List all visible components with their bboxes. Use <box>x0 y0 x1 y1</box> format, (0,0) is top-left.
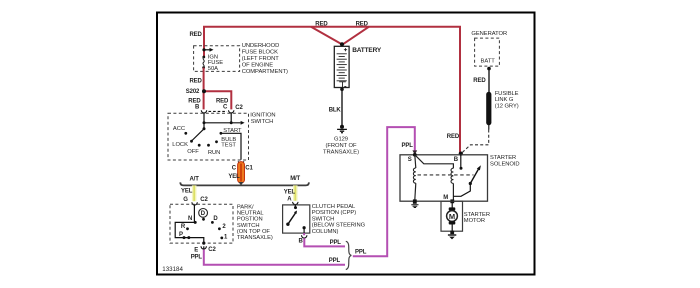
svg-text:SWITCH: SWITCH <box>251 119 274 125</box>
svg-text:FUSE: FUSE <box>208 60 223 66</box>
solenoid B contact wire <box>460 154 463 170</box>
CPP switch contacts and lever <box>286 205 306 233</box>
ignition switch position labels <box>172 126 242 156</box>
starter motor box <box>441 201 463 231</box>
wire PPL from brace to solenoid S <box>353 127 415 256</box>
svg-text:TRANSAXLE): TRANSAXLE) <box>323 149 359 155</box>
ground G129 <box>337 125 347 133</box>
dashed connection fusible link to solenoid B <box>462 130 489 153</box>
svg-text:(ON TOP OF: (ON TOP OF <box>237 229 271 235</box>
fusible link label <box>495 91 519 109</box>
svg-text:IGNITION: IGNITION <box>250 112 275 118</box>
svg-text:(FRONT OF: (FRONT OF <box>326 143 358 149</box>
svg-text:C2: C2 <box>208 247 216 253</box>
label G129 <box>323 136 359 155</box>
solenoid ground <box>411 199 418 207</box>
wire YEL to park/neutral switch <box>192 185 197 201</box>
terminal M <box>443 195 454 203</box>
svg-text:YEL: YEL <box>181 189 193 195</box>
svg-text:RED: RED <box>356 21 369 27</box>
wire RED top feed from fuse block to battery and solenoid B <box>204 27 460 154</box>
junction bracket A/T M/T <box>180 182 309 185</box>
terminal S <box>408 153 417 163</box>
svg-text:(12 GRY): (12 GRY) <box>495 103 519 109</box>
park/neutral switch contact path N-P-E <box>175 222 204 243</box>
svg-text:PPL: PPL <box>355 249 367 255</box>
battery <box>334 42 349 91</box>
park/neutral position switch dashed box <box>170 204 233 243</box>
svg-text:COMPARTMENT): COMPARTMENT) <box>242 69 288 75</box>
starter solenoid label <box>490 155 520 168</box>
svg-text:C2: C2 <box>235 105 243 111</box>
svg-text:C2: C2 <box>200 197 208 203</box>
wire RED fuse to S202 and to C2 terminals B and C <box>204 68 232 110</box>
svg-text:G: G <box>183 197 188 203</box>
plunger dashed link <box>418 174 474 176</box>
ignition switch label <box>250 112 275 125</box>
connector cup G <box>192 202 197 205</box>
svg-text:C1: C1 <box>245 166 253 172</box>
svg-text:FUSE BLOCK: FUSE BLOCK <box>242 50 278 56</box>
svg-text:RED: RED <box>190 79 203 85</box>
svg-text:YEL: YEL <box>228 174 240 180</box>
pull-in winding <box>415 155 454 200</box>
svg-text:RED: RED <box>447 134 460 140</box>
svg-text:E: E <box>194 248 198 254</box>
svg-text:MOTOR: MOTOR <box>464 218 485 224</box>
svg-text:M: M <box>443 195 448 201</box>
park/neutral position letters <box>179 216 228 241</box>
svg-text:RUN: RUN <box>208 150 220 156</box>
solenoid B junction dot <box>459 152 463 156</box>
svg-text:BATT: BATT <box>481 58 496 64</box>
park/neutral switch internal wire from G <box>193 204 195 222</box>
svg-text:STARTER: STARTER <box>464 212 490 218</box>
svg-text:RED: RED <box>190 32 203 38</box>
connector C1 labels <box>228 166 253 181</box>
generator BATT terminal dot <box>487 67 491 71</box>
label RED terminal C <box>216 98 229 110</box>
svg-text:S: S <box>408 157 412 163</box>
wire START contact to C1 output <box>221 133 241 160</box>
svg-text:NEUTRAL: NEUTRAL <box>237 211 265 217</box>
underhood fuse block label <box>242 43 288 75</box>
brace merging PPL wires <box>346 241 352 269</box>
svg-text:UNDERHOOD: UNDERHOOD <box>242 43 280 49</box>
connector C1 orange highlight capsule <box>238 162 245 183</box>
connector cup A <box>293 202 298 205</box>
ignition switch internal wires <box>204 113 241 129</box>
wire PPL from park/neutral E to brace <box>204 246 345 264</box>
svg-text:N: N <box>188 216 192 222</box>
svg-text:S202: S202 <box>186 89 200 95</box>
svg-text:SWITCH: SWITCH <box>312 216 335 222</box>
svg-text:COLUMN): COLUMN) <box>312 229 339 235</box>
svg-text:LOCK: LOCK <box>172 142 188 148</box>
terminal B cup of CPP switch <box>299 235 307 244</box>
svg-text:M/T: M/T <box>290 176 300 182</box>
park/neutral gear indicator D circle <box>199 209 208 218</box>
starter solenoid box <box>400 155 488 201</box>
ignition switch junction dots <box>203 121 233 130</box>
svg-text:G129: G129 <box>334 136 348 142</box>
fusible link G <box>486 92 491 130</box>
svg-text:GENERATOR: GENERATOR <box>471 31 507 37</box>
ignition switch feed arrow <box>241 121 245 125</box>
svg-text:133184: 133184 <box>162 266 183 273</box>
label RED terminal B <box>188 98 201 110</box>
wire PPL from CPP B to brace <box>304 233 345 246</box>
svg-text:POSITION (CPP): POSITION (CPP) <box>312 210 357 216</box>
svg-text:PPL: PPL <box>191 254 203 260</box>
underhood fuse block dashed box <box>194 46 240 72</box>
wire RED battery positive feed (V drop) <box>311 27 369 45</box>
svg-text:BLK: BLK <box>329 108 342 114</box>
ignition switch lever to LOCK <box>192 129 205 141</box>
generator dashed box <box>475 38 500 66</box>
starter motor ground <box>448 231 456 240</box>
svg-text:(LEFT FRONT: (LEFT FRONT <box>242 56 280 62</box>
svg-text:SWITCH: SWITCH <box>237 223 260 229</box>
svg-text:RED: RED <box>473 78 486 84</box>
arrow from C1 to junction <box>239 182 244 185</box>
svg-text:50A: 50A <box>208 66 218 72</box>
svg-text:PPL: PPL <box>402 143 414 149</box>
svg-text:(BELOW STEERING: (BELOW STEERING <box>312 223 366 229</box>
svg-text:BATTERY: BATTERY <box>352 47 382 54</box>
svg-text:PPL: PPL <box>329 258 341 264</box>
connector C2 cups at ignition switch <box>201 110 234 113</box>
svg-text:YEL: YEL <box>284 189 296 195</box>
connector C1 cup <box>238 161 243 164</box>
svg-text:TRANSAXLE): TRANSAXLE) <box>237 235 273 241</box>
clutch pedal position switch box <box>283 205 310 233</box>
terminal E cup and labels <box>191 246 217 260</box>
svg-text:P: P <box>179 232 183 238</box>
solenoid contact lever <box>453 165 481 196</box>
ignition switch dashed box <box>168 113 249 160</box>
park/neutral position switch label <box>237 204 273 241</box>
fuse IGN FUSE 50A <box>202 54 223 72</box>
svg-text:LINK G: LINK G <box>495 97 514 103</box>
ignition switch contacts <box>184 132 222 147</box>
svg-text:M: M <box>449 212 455 221</box>
svg-text:RED: RED <box>188 98 201 104</box>
wire BLK battery negative <box>341 89 343 125</box>
fuse feed arrow <box>202 48 213 52</box>
starter motor label <box>464 212 490 224</box>
svg-text:SOLENOID: SOLENOID <box>490 161 520 167</box>
arrow PPL onto S terminal <box>412 150 417 154</box>
hold-in winding <box>413 155 415 200</box>
svg-text:STARTER: STARTER <box>490 155 516 161</box>
svg-text:POSTION: POSTION <box>237 217 263 223</box>
svg-text:TEST: TEST <box>221 143 236 149</box>
svg-text:A/T: A/T <box>190 176 200 182</box>
wire RED generator to fusible link <box>488 69 490 92</box>
svg-text:OF ENGINE: OF ENGINE <box>242 63 274 69</box>
svg-text:ACC: ACC <box>173 126 185 132</box>
splice S202 <box>186 89 206 95</box>
starter motor <box>447 203 458 231</box>
clutch pedal position switch label <box>312 204 366 235</box>
svg-text:RED: RED <box>216 98 229 104</box>
svg-text:PARK/: PARK/ <box>237 204 254 210</box>
svg-text:RED: RED <box>315 21 328 27</box>
wire YEL to CPP switch <box>293 185 298 200</box>
svg-text:OFF: OFF <box>187 149 199 155</box>
park/neutral switch contact dots <box>183 218 224 245</box>
svg-text:PPL: PPL <box>330 240 342 246</box>
